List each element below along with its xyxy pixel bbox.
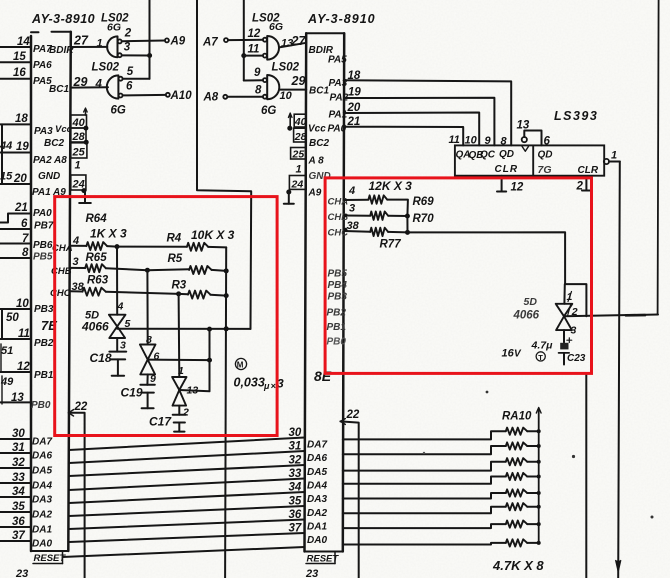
pin number 35 (chip2) (289, 496, 302, 508)
junction dot R70/R77 node (405, 230, 410, 235)
pin number 5 (S1) (125, 318, 131, 330)
svg-text:7G: 7G (538, 164, 552, 176)
svg-text:CLR: CLR (578, 165, 599, 176)
capacitor C18 ground (112, 359, 124, 375)
svg-text:A9: A9 (170, 36, 186, 48)
pin number 29 (chip2) (291, 74, 306, 88)
svg-text:A 8: A 8 (308, 156, 325, 167)
circled M motif (235, 358, 246, 369)
svg-text:QD: QD (538, 150, 553, 161)
pin number 1 GND (chip2) (296, 164, 302, 176)
junction dot pin40 (chip2) (287, 126, 292, 131)
pin label PA1 (chip2) (329, 110, 348, 121)
label 10K X 3 (191, 228, 235, 242)
svg-text:PB6: PB6 (33, 240, 53, 251)
junction dot node CHB (145, 268, 150, 273)
label 4.7u (531, 340, 554, 352)
junction dot rail row 2 (537, 444, 541, 448)
wire PA3 pin18 to LS393 pin8 (344, 80, 511, 145)
analog switch S2 (4066 #2) (140, 345, 156, 375)
svg-text:μ: μ (263, 381, 270, 391)
resistor RA10-4 (4.7K) (506, 473, 527, 480)
svg-text:40: 40 (294, 116, 307, 128)
pin label DA6 (chip2) (307, 453, 327, 464)
svg-text:30: 30 (289, 427, 302, 439)
svg-text:A9: A9 (308, 188, 322, 199)
wire node to R4 (117, 246, 187, 248)
pin box 25 (chip1) (71, 143, 87, 159)
pull-up rail with arrow (536, 408, 541, 543)
terminal circle A9 (165, 38, 169, 42)
left-edge connector 11-12 (0, 344, 2, 372)
wire node to R3 (179, 293, 188, 295)
wire data bus DA0 (69, 533, 305, 542)
ground symbol pin12 (497, 176, 506, 192)
wire RA10-4 to rail (527, 476, 539, 478)
bubble pin11 G3 (263, 54, 267, 58)
capacitor C23 bottom lead (563, 353, 565, 365)
wire pin6 to pin13 loop (524, 131, 541, 146)
pin number 1 GND (chip1) (75, 160, 81, 172)
wire pin 8 (chip1 left) (0, 257, 31, 259)
wire R65 to node (106, 268, 148, 270)
pin number 32 (chip2) (289, 455, 302, 467)
label R4 (167, 233, 182, 245)
wire CHB pin3 (chip1) to R65 (71, 267, 85, 269)
svg-text:4.7K X 8: 4.7K X 8 (492, 558, 544, 573)
wire DA2 to RA10 resistor (343, 507, 506, 514)
svg-text:16: 16 (502, 348, 515, 360)
net label 51 (1, 345, 13, 357)
junction dot CHB pin (chip2) (344, 214, 348, 218)
pin label DA5 (chip2) (307, 467, 327, 478)
pin label PB1 (chip2) (327, 322, 347, 333)
label 6G (G3) (269, 21, 283, 33)
pin label PB6 (33, 240, 53, 251)
pin number 12 (chip1) (17, 361, 30, 373)
svg-text:9: 9 (485, 135, 492, 147)
svg-text:1K X 3: 1K X 3 (90, 227, 127, 241)
svg-text:7: 7 (22, 233, 29, 245)
wire vertical node to top edge (149, 0, 151, 79)
svg-text:C18: C18 (90, 351, 112, 365)
pin label PA7 (33, 44, 52, 55)
gate U6G-4 (D-gate) (267, 75, 279, 99)
net label A10 (170, 90, 193, 102)
junction dot R5/R4 vertical (224, 268, 229, 273)
pin number 31 (chip2) (289, 441, 302, 453)
pin number 27 (chip2) (291, 34, 307, 48)
wire pin 33 DA4 stub (chip1 left) (0, 482, 31, 484)
label AY-3-8910 (left chip) (31, 12, 95, 26)
label 1K X 3 (90, 227, 127, 241)
svg-text:DA6: DA6 (32, 451, 52, 462)
svg-text:LS02: LS02 (92, 62, 120, 74)
junction dot rail row 6 (537, 505, 541, 509)
svg-text:PA0: PA0 (328, 124, 347, 135)
pin label PA1 (chip1) (32, 187, 51, 198)
wire R63 to node (106, 292, 179, 294)
svg-text:40: 40 (72, 117, 86, 129)
wire CHB pin3 (chip2) to R70 (344, 215, 370, 217)
wire data bus DA3 (69, 492, 305, 503)
label C19 (121, 386, 143, 400)
pin label RESET (chip2) (306, 552, 339, 565)
pin label PB2 (chip1) (34, 338, 54, 349)
svg-text:A8: A8 (203, 92, 219, 104)
label R70 (413, 213, 435, 225)
pin number 6 (chip1) (21, 218, 28, 230)
pin number 3 (S4) (571, 325, 577, 337)
wire reset bus (63, 547, 305, 557)
svg-text:28: 28 (72, 131, 86, 143)
svg-text:QD: QD (499, 149, 514, 160)
pin label PB5 (chip2) (328, 269, 348, 280)
capacitor C19 ground (142, 393, 154, 409)
pin number 13 (G3 out) (281, 38, 293, 50)
pin label PB1 (chip1) (34, 370, 54, 381)
svg-text:LS393: LS393 (554, 109, 598, 123)
wire data bus DA5 (69, 465, 305, 476)
junction dot pin24 (chip1) (81, 188, 86, 193)
svg-text:32: 32 (289, 455, 302, 467)
pin label BC2 (chip2) (309, 138, 329, 149)
wire PA0 pin21 to LS393 pin11 (344, 127, 463, 146)
svg-text:21: 21 (347, 116, 361, 128)
svg-text:PB0: PB0 (327, 337, 347, 348)
svg-text:10: 10 (16, 298, 29, 310)
svg-text:6G: 6G (269, 21, 283, 33)
label 7G designator (538, 164, 552, 176)
svg-text:34: 34 (289, 482, 302, 494)
svg-text:A8: A8 (53, 155, 67, 166)
svg-text:18: 18 (348, 70, 361, 82)
IC U7G LS393 body (455, 145, 604, 175)
scan speck 3 (651, 516, 654, 519)
wire CHC pin38 (chip2) to R77 (344, 230, 370, 233)
svg-text:PB4: PB4 (328, 280, 348, 291)
pin number 29 (chip1) (73, 75, 88, 89)
pin number 8 (LS393) (501, 136, 508, 148)
left-edge connector 12-13 (1, 376, 3, 404)
wire pin 6 (chip1 left) (0, 228, 31, 230)
pin label CLR (right half) (578, 165, 599, 176)
label 4066 (right) (513, 310, 540, 322)
pin label DA0 (chip1) (32, 539, 52, 550)
wire S2 output row (148, 359, 210, 362)
resistor RA10-5 (4.7K) (506, 489, 527, 496)
wire pin1 to right rail (609, 161, 620, 163)
pin 22 arrow (chip1) (69, 410, 74, 416)
pin number 30 (chip2) (289, 427, 302, 439)
wire DA6 to RA10 resistor (343, 446, 506, 454)
arrowhead down (pin1 rail bottom) (616, 561, 621, 572)
pin number 22 (chip2) (346, 409, 360, 421)
pin label PB3 (chip1) (34, 304, 54, 315)
wire pin 12 (chip1 left) (0, 371, 31, 373)
svg-text:BC1: BC1 (49, 84, 69, 95)
pin number 21 (chip1) (14, 202, 28, 214)
svg-text:DA0: DA0 (307, 535, 327, 546)
svg-text:R63: R63 (87, 275, 109, 287)
wire pin 15 (chip1 left) (0, 61, 31, 63)
wire S4 output to far right (564, 315, 658, 317)
label 7E designator (41, 318, 57, 333)
pin number 2 (LS393) (576, 181, 584, 193)
pin label CHB (chip2) (328, 212, 349, 223)
pin label GND (chip2) (309, 171, 331, 182)
pin number 23 (chip2) (305, 568, 318, 578)
svg-text:R3: R3 (172, 280, 187, 292)
pin label QD (left half) (499, 149, 514, 160)
pin number 9 (S2) (150, 373, 156, 385)
wire data bus DA7 (69, 438, 305, 451)
svg-text:PB7: PB7 (34, 221, 54, 232)
pin number 9 (LS393) (485, 135, 492, 147)
svg-text:25: 25 (72, 146, 86, 158)
svg-text:C17: C17 (149, 415, 172, 429)
pin label DA4 (chip1) (32, 481, 52, 492)
pin label QA (456, 150, 471, 161)
label C23 (567, 353, 586, 364)
wire net vertical (top) and jog (197, 0, 251, 329)
pin label PA5 (chip2) (328, 55, 347, 66)
bubble pin12 G3 (263, 38, 267, 42)
svg-text:12K X 3: 12K X 3 (369, 179, 413, 193)
svg-text:8E: 8E (314, 368, 332, 384)
pin label QB (469, 150, 484, 161)
pin number 1 (gate G1 input) (97, 38, 103, 50)
svg-text:33: 33 (289, 468, 302, 480)
resistor RA10-2 (4.7K) (506, 442, 527, 449)
svg-text:RA10: RA10 (502, 411, 532, 423)
svg-text:36: 36 (12, 516, 25, 528)
label AY-3-8910 (right chip) (307, 12, 376, 26)
label LS02 (gate G3) (252, 13, 280, 25)
pin number 36 (chip2) (289, 509, 302, 521)
Vcc arrow (chip2) (288, 113, 292, 128)
pin number 33 (chip1) (12, 472, 25, 484)
pin label PA2 (chip1) (33, 155, 52, 166)
pin label DA7 (chip2) (307, 440, 327, 451)
pin number 11 (G3) (248, 44, 260, 56)
resistor R77 (370, 228, 388, 236)
capacitor C17 ground (174, 423, 184, 432)
label 6G (below G4) (261, 105, 276, 117)
pin label PA6 (33, 60, 52, 71)
pin label Vcc (chip2) (308, 124, 326, 135)
ground symbol pin24 (chip1) (79, 191, 91, 203)
svg-text:BC2: BC2 (309, 138, 329, 149)
junction dot pin24 (chip2) (286, 190, 291, 195)
pin number 1 (LS393) (611, 150, 617, 162)
pin label DA1 (chip2) (307, 522, 327, 533)
svg-text:14: 14 (17, 36, 30, 48)
pin label BDIR (chip1) (49, 45, 74, 56)
label LS393 (554, 109, 598, 123)
wire G1 pin2 to A9 terminal (122, 40, 165, 43)
wire CHC pin38 (chip1) to R63 (71, 290, 83, 292)
svg-text:4: 4 (72, 235, 79, 247)
pin label BC1 (chip1) (49, 84, 69, 95)
wire RA10-7 to rail (527, 523, 539, 525)
capacitor C17 (173, 415, 186, 423)
label 16V (502, 348, 523, 360)
wire R64 to node (107, 245, 117, 248)
svg-text:R5: R5 (168, 253, 183, 265)
wire pin 18 (chip1 left) (0, 123, 31, 125)
svg-text:R77: R77 (380, 239, 402, 251)
pin number 8 (G4) (255, 85, 262, 97)
pin number 6 (G2) (126, 81, 133, 93)
pin label DA5 (chip1) (32, 466, 52, 477)
wire A7 to G3 pin12 (228, 39, 263, 41)
svg-text:28: 28 (294, 131, 307, 143)
svg-text:37: 37 (12, 530, 25, 542)
svg-text:T: T (538, 353, 543, 362)
pin number 15 (chip1) (13, 51, 26, 63)
pin 22 arrow (chip2) (340, 419, 345, 425)
pin number 37 (chip2) (289, 523, 302, 535)
pin number 30 (chip1) (12, 428, 25, 440)
label 12K X 3 (369, 179, 413, 193)
svg-text:31: 31 (12, 442, 25, 454)
pin number 3 (G1) (124, 42, 131, 54)
junction dot rail row 7 (537, 522, 541, 526)
svg-text:18: 18 (15, 113, 28, 125)
label 4.7K X 8 (492, 558, 544, 573)
resistor R64 (86, 242, 107, 250)
pin box 24 A9 (chip1) (71, 175, 86, 191)
svg-text:6: 6 (126, 81, 133, 93)
scan speck 1 (486, 391, 489, 394)
wire S1 pin3 lead to C18 (116, 338, 118, 352)
bubble pin9 G4 (263, 78, 267, 82)
wire S1 output row (117, 328, 250, 330)
svg-text:20: 20 (347, 102, 361, 114)
label 6G (upper) (107, 22, 121, 34)
svg-text:CHB: CHB (328, 212, 349, 223)
wire far-right vertical (658, 0, 659, 314)
pin number 10 (chip1) (16, 298, 29, 310)
pin label DA6 (chip1) (32, 451, 52, 462)
pin label CHA (chip2) (328, 197, 349, 208)
svg-text:4.7μ: 4.7μ (531, 340, 554, 352)
pin label RESET (chip1) (33, 551, 66, 564)
capacitor C19 (140, 385, 154, 393)
label R64 (86, 213, 108, 225)
pin number 27 (chip1) (73, 34, 89, 48)
svg-text:15: 15 (0, 171, 13, 183)
resistor R5 (189, 266, 212, 274)
pin label PB3 (chip2) (328, 292, 348, 303)
pin number 4 (G2 input) (95, 79, 103, 91)
svg-text:30: 30 (12, 428, 25, 440)
pin label PB0 (chip1) (31, 400, 51, 411)
svg-text:DA1: DA1 (32, 525, 52, 536)
pin label PA0 (chip2) (328, 124, 347, 135)
svg-text:50: 50 (6, 312, 19, 324)
pin number 2 (S4) (568, 304, 578, 318)
svg-text:19: 19 (16, 141, 29, 153)
wire pin 21 (chip1 left, stepped) (0, 214, 31, 223)
svg-text:QC: QC (480, 150, 496, 161)
pin number 3 (chip1 CHB) (73, 256, 79, 268)
wire pin 10 (chip1 left) (0, 308, 31, 310)
svg-text:PA3: PA3 (34, 126, 53, 137)
pin number 31 (chip1) (12, 442, 25, 454)
pin label A8 (chip1) (53, 155, 67, 166)
net label 45 (0, 171, 13, 183)
svg-text:27: 27 (291, 34, 307, 48)
pin label GND (chip1) (38, 171, 60, 182)
wire DA5 to RA10 resistor (343, 462, 506, 471)
svg-text:4066: 4066 (513, 310, 540, 322)
svg-text:PA1: PA1 (32, 187, 51, 198)
wire pin 13 (chip1 left) (0, 401, 31, 403)
pin label A9 (chip1) (52, 187, 66, 198)
svg-text:PB0: PB0 (31, 400, 51, 411)
svg-text:10: 10 (280, 90, 293, 102)
gate U6G-2 (half-moon) (107, 75, 119, 98)
label R65 (86, 252, 108, 264)
wire data bus DA1 (69, 520, 305, 530)
svg-text:Vcc: Vcc (55, 124, 73, 135)
svg-text:3: 3 (73, 256, 79, 268)
svg-text:15: 15 (13, 51, 26, 63)
pin label BDIR (chip2) (309, 45, 334, 56)
svg-text:11: 11 (248, 44, 260, 56)
pin label CHB (chip1) (51, 266, 72, 277)
wire R77 node to switch S4 (408, 232, 566, 284)
resistor R4 (187, 243, 208, 251)
junction dot rail row 1 (537, 429, 541, 433)
pin number 38 (chip2 CHC) (347, 220, 360, 232)
svg-text:A7: A7 (202, 37, 218, 49)
pin label PA5 (chip1) (33, 76, 52, 87)
wire PA1 pin20 to LS393 pin10 (344, 113, 479, 146)
pin number 32 (chip1) (12, 457, 25, 469)
wire A8 to G4 pin8 (227, 96, 262, 98)
wire pin 14 (chip1 left) (0, 46, 31, 48)
pin box 28 (chip1) (71, 128, 86, 143)
svg-text:DA7: DA7 (307, 440, 327, 451)
pin number 18 (chip2) (348, 70, 361, 82)
svg-text:12: 12 (17, 361, 30, 373)
pin number 33 (chip2) (289, 468, 302, 480)
wire blob on output (626, 314, 645, 317)
pin number 3 (S1) (120, 340, 126, 352)
svg-text:6: 6 (544, 136, 551, 148)
svg-text:PB3: PB3 (34, 304, 54, 315)
label 4066 (left) (81, 320, 109, 334)
svg-text:2: 2 (124, 28, 132, 40)
svg-text:0,033: 0,033 (234, 376, 265, 390)
label 0.033u x3 (234, 376, 285, 392)
pin number 18 (chip1) (15, 113, 28, 125)
wire R4 node vertical to bottom (225, 247, 226, 578)
pin label DA4 (chip2) (307, 481, 327, 492)
wire R5 to node (212, 270, 227, 271)
wire pin 37 DA0 stub (chip1 left) (0, 540, 31, 542)
pin box 24 A9 (chip2) (289, 176, 306, 191)
wire pin 30 DA7 stub (chip1 left) (0, 438, 31, 440)
net label A9 (170, 36, 186, 48)
pin label DA2 (chip2) (307, 508, 327, 519)
wire pin 36 DA1 stub (chip1 left) (0, 526, 31, 528)
svg-text:BC1: BC1 (309, 86, 329, 97)
pin number 14 (chip1) (17, 36, 30, 48)
